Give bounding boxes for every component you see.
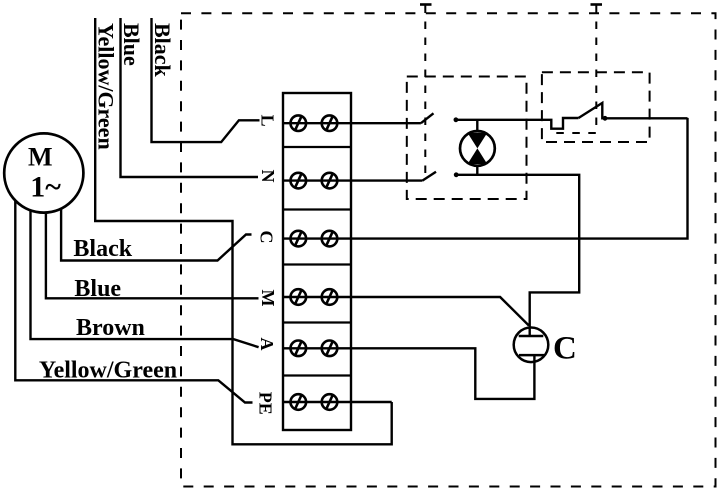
outer dashed enclosure (fan housing)	[181, 13, 716, 486]
wire: supply Black down to L	[152, 18, 260, 142]
capacitor top lead inside body	[529, 328, 531, 337]
wire: motor yellow/green lead to PE	[15, 173, 252, 403]
mechanical linkage (dashed) to switch S1	[424, 6, 426, 177]
thermal protector heater + contact blade	[579, 103, 688, 118]
wire: supply Blue down to N	[121, 18, 259, 177]
capacitor C body	[514, 328, 549, 363]
indicator lamp HL circle	[460, 131, 495, 166]
wire: S1b output right and down to capacitor top	[456, 175, 579, 336]
terminal block divider 2	[283, 208, 351, 210]
svg-text:C: C	[553, 331, 577, 367]
terminal screws row A	[291, 341, 338, 357]
capacitor bottom plate	[519, 354, 544, 357]
switch box (dashed) around S1 and lamp	[407, 77, 527, 200]
switch S1a blade (L pole)	[421, 113, 434, 123]
wire: motor black lead to C	[61, 173, 251, 261]
wire: lamp bottom lead	[476, 165, 478, 175]
pull cord tick for switch S1	[420, 3, 432, 6]
wire: terminal row M to capacitor top	[283, 297, 529, 326]
wire: motor brown lead to A	[31, 173, 259, 347]
wire: S1a output to thermal protector input	[456, 118, 579, 129]
svg-text:L: L	[258, 115, 278, 127]
svg-text:Yellow/Green: Yellow/Green	[39, 358, 177, 384]
switch S1b blade (N pole)	[422, 172, 436, 181]
junction node at thermal output	[603, 116, 608, 121]
wire: motor blue lead to M	[46, 173, 259, 298]
thermal protector box (dashed)	[542, 72, 650, 142]
svg-text:Yellow/Green: Yellow/Green	[94, 23, 119, 150]
svg-text:C: C	[257, 231, 277, 244]
junction node at S1a output	[454, 117, 459, 122]
wire: supply Yellow/Green down, around bottom to PE	[95, 18, 392, 444]
wire: terminal row N to switch S1b	[283, 179, 422, 181]
terminal block divider 1	[283, 146, 351, 148]
wire: terminal row C right and up to thermal output	[283, 118, 688, 239]
svg-text:1~: 1~	[30, 171, 61, 204]
terminal screws row N	[291, 173, 338, 189]
svg-text:M: M	[28, 143, 53, 172]
terminal screws row M	[291, 289, 338, 305]
capacitor bottom lead inside body	[533, 355, 535, 362]
terminal block body	[283, 93, 351, 430]
wire: terminal row A to capacitor bottom	[283, 348, 534, 399]
terminal screws row PE	[291, 394, 338, 410]
svg-text:Brown: Brown	[76, 315, 145, 341]
svg-text:Blue: Blue	[119, 23, 144, 66]
junction node at S1b output	[454, 172, 459, 177]
terminal block divider 4	[283, 321, 351, 323]
lamp bottom filled wedge	[468, 148, 488, 164]
sensing linkage (dashed) into thermal unit	[556, 6, 596, 134]
lamp top filled wedge	[468, 133, 488, 149]
terminal block divider 3	[283, 263, 351, 265]
wire: lamp top lead	[476, 120, 478, 132]
capacitor top plate	[519, 335, 544, 338]
wire: terminal row PE	[283, 401, 392, 403]
svg-text:Blue: Blue	[74, 276, 121, 302]
terminal block divider 5	[283, 374, 351, 376]
svg-text:A: A	[257, 338, 277, 351]
svg-text:Black: Black	[73, 236, 132, 262]
svg-text:Black: Black	[150, 23, 175, 78]
terminal screws row C	[291, 231, 338, 247]
svg-text:M: M	[258, 290, 278, 307]
svg-text:N: N	[258, 170, 278, 183]
svg-text:PE: PE	[256, 392, 276, 415]
motor M1 circle	[4, 133, 83, 212]
terminal screws row L	[291, 115, 338, 131]
wire: terminal row L to switch S1a	[283, 122, 421, 124]
pull cord tick for thermal unit	[591, 3, 603, 6]
